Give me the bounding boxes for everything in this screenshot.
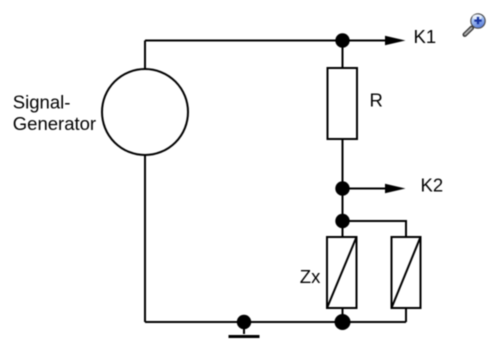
svg-text:R: R xyxy=(370,90,383,111)
svg-text:K2: K2 xyxy=(421,175,444,196)
svg-text:Zx: Zx xyxy=(300,266,321,287)
svg-text:K1: K1 xyxy=(414,26,437,47)
svg-text:Generator: Generator xyxy=(13,113,96,134)
svg-text:Signal-: Signal- xyxy=(13,92,71,113)
